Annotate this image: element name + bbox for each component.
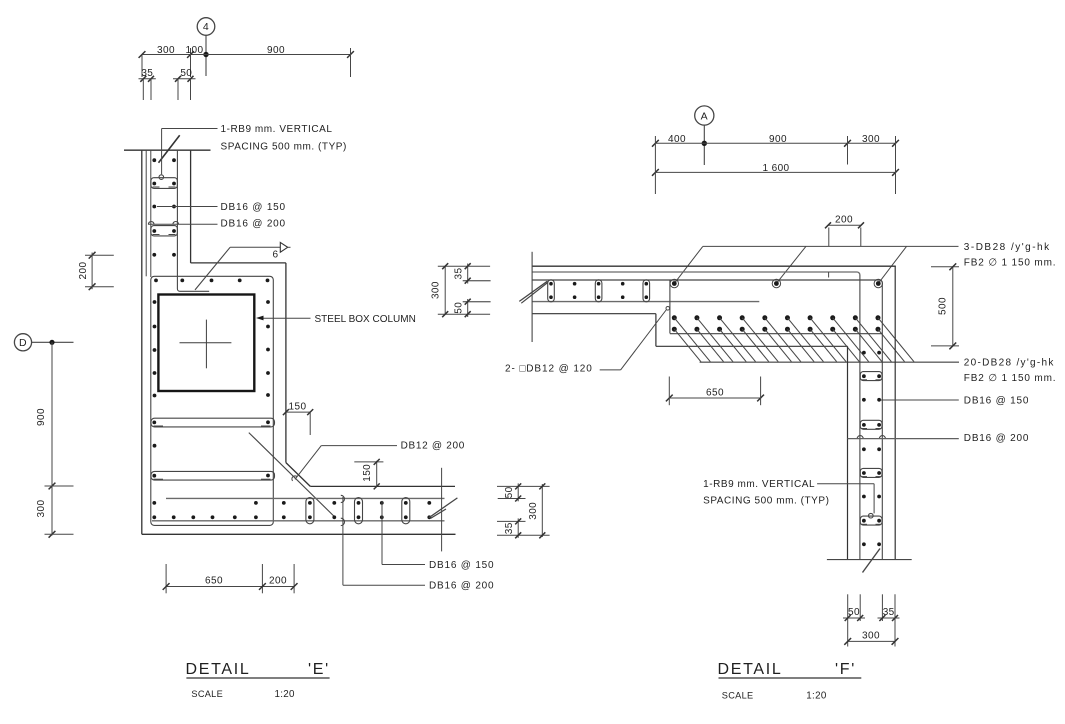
wall F stirrup right line xyxy=(881,283,883,560)
pedestal right rebar dots xyxy=(266,300,270,397)
svg-text:3-DB28 /y'g-hk: 3-DB28 /y'g-hk xyxy=(964,242,1051,253)
svg-text:650: 650 xyxy=(706,387,724,398)
slab E stirrups xyxy=(306,498,410,524)
slab F top rebar line xyxy=(532,272,860,275)
svg-text:150: 150 xyxy=(289,401,307,412)
svg-text:FB2 ∅ 1 150 mm.: FB2 ∅ 1 150 mm. xyxy=(964,373,1057,384)
pedestal E chamfer xyxy=(286,463,310,487)
leader 1-RB9 F xyxy=(817,484,874,518)
wall F stirrup boxes xyxy=(860,372,882,525)
wall E rebar dots xyxy=(152,158,176,256)
dimension 500 F xyxy=(931,263,959,349)
box-out step F xyxy=(656,314,848,347)
extension line E-top right xyxy=(350,48,352,77)
svg-text:300: 300 xyxy=(157,45,175,56)
grid bubble 4 xyxy=(197,18,215,76)
rebar break slash wall E xyxy=(159,135,180,162)
slab E lower rebar dots xyxy=(152,515,431,519)
leader DB16 150 E-wall xyxy=(157,206,218,208)
svg-text:SCALE: SCALE xyxy=(722,690,754,700)
grid bubble D xyxy=(14,334,73,351)
dimension 650 E-bottom xyxy=(163,576,298,590)
title DETAIL F xyxy=(718,661,862,678)
svg-text:'F': 'F' xyxy=(835,661,856,678)
wall E stirrup hooks xyxy=(148,222,178,225)
svg-text:2- □DB12 @ 120: 2- □DB12 @ 120 xyxy=(505,364,593,375)
slab E bottom cover line xyxy=(152,520,445,522)
slab E top rebar hook arc xyxy=(341,495,345,502)
bent bar diagonal E xyxy=(249,433,335,517)
svg-text:1:20: 1:20 xyxy=(275,689,296,700)
slab F stirrups xyxy=(548,280,650,302)
slab F top cover line xyxy=(532,280,882,283)
svg-text:200: 200 xyxy=(78,262,89,280)
slab E top edge xyxy=(310,485,455,487)
svg-text:50: 50 xyxy=(504,486,515,498)
svg-text:900: 900 xyxy=(36,408,47,426)
wall F stirrup hooks xyxy=(857,436,885,439)
leader 1-RB9 E xyxy=(159,129,218,180)
svg-text:4: 4 xyxy=(203,21,209,33)
dimension 650 F xyxy=(666,377,764,406)
leader 3-DB28 xyxy=(674,246,958,283)
3-DB28 ringed dots xyxy=(670,279,882,287)
svg-text:35: 35 xyxy=(454,268,465,280)
svg-text:STEEL BOX COLUMN: STEEL BOX COLUMN xyxy=(315,314,416,325)
svg-text:'E': 'E' xyxy=(308,661,330,678)
svg-text:150: 150 xyxy=(362,464,373,482)
slab E top rebar line xyxy=(166,497,445,499)
dimension 50 F-bottom xyxy=(843,607,865,621)
leader 2-DB12 xyxy=(600,310,667,370)
svg-text:DETAIL: DETAIL xyxy=(718,661,783,678)
svg-text:DB16 @ 200: DB16 @ 200 xyxy=(429,581,494,592)
leader DB16 150 F xyxy=(881,399,959,401)
svg-text:200: 200 xyxy=(269,576,287,587)
dimension line 1600 xyxy=(652,163,899,176)
svg-text:DB16 @ 150: DB16 @ 150 xyxy=(964,395,1029,406)
dimension 300 E-right xyxy=(528,483,546,538)
slab F end break slashes xyxy=(519,281,548,303)
dimension line F-top xyxy=(652,140,899,147)
svg-text:900: 900 xyxy=(769,134,787,145)
wall F break slash xyxy=(863,549,881,573)
slab F top edge xyxy=(532,265,896,267)
wall F rebar dots xyxy=(862,351,881,546)
svg-text:A: A xyxy=(701,110,708,122)
svg-text:300: 300 xyxy=(862,630,880,641)
dimension 35 F-left xyxy=(454,263,471,284)
F-left ext lines xyxy=(438,266,491,314)
svg-text:300: 300 xyxy=(36,500,47,518)
pedestal E right face xyxy=(285,263,287,463)
pedestal stirrup band 2 xyxy=(151,471,275,480)
dimension 200 E-left xyxy=(78,252,114,290)
wall F bottom break line xyxy=(827,559,912,561)
svg-text:50: 50 xyxy=(454,302,465,314)
svg-text:100: 100 xyxy=(186,45,204,56)
svg-text:50: 50 xyxy=(848,607,860,618)
pedestal top rebar dots xyxy=(154,279,269,283)
beam F left edge xyxy=(669,280,671,334)
title SCALE F xyxy=(722,690,827,701)
svg-text:FB2 ∅ 1 150 mm.: FB2 ∅ 1 150 mm. xyxy=(964,257,1057,268)
dimension 150 chamfer height xyxy=(354,459,383,490)
beam F bar end circle xyxy=(666,307,670,311)
leader DB16 200 F xyxy=(848,438,959,440)
slab E end break slashes xyxy=(429,498,457,518)
20-DB28 rebar dots xyxy=(672,315,881,331)
svg-text:1-RB9 mm. VERTICAL: 1-RB9 mm. VERTICAL xyxy=(703,479,815,490)
wall E stirrup left line xyxy=(150,150,152,277)
title DETAIL E xyxy=(186,661,330,678)
slab F left cut edge xyxy=(531,252,533,342)
footing E top edge xyxy=(191,262,286,264)
grid bubble A xyxy=(695,106,714,165)
wall E stirrup box 2 xyxy=(151,226,178,236)
svg-text:650: 650 xyxy=(205,576,223,587)
slab F bottom edge xyxy=(532,313,656,315)
svg-text:20-DB28 /y'g-hk: 20-DB28 /y'g-hk xyxy=(964,357,1055,368)
beam F bottom cover line xyxy=(670,333,882,335)
pedestal left rebar dots xyxy=(153,300,157,448)
wall E stirrup right line xyxy=(177,150,209,291)
steel box centerline cross xyxy=(180,320,232,369)
slab F bottom cover line xyxy=(532,301,759,303)
hatch band F xyxy=(674,318,914,362)
wall E outer left face xyxy=(141,150,143,534)
dimension 35 E-top xyxy=(139,68,156,100)
dimension 35 E-right xyxy=(504,518,521,538)
leader DB16 200 E-wall xyxy=(148,223,218,225)
slab bar diagonal E xyxy=(195,247,230,290)
svg-text:SCALE: SCALE xyxy=(191,689,223,699)
svg-text:35: 35 xyxy=(883,607,895,618)
svg-text:1-RB9 mm. VERTICAL: 1-RB9 mm. VERTICAL xyxy=(221,124,333,135)
ground line E xyxy=(124,149,211,151)
svg-text:D: D xyxy=(19,337,27,349)
dimension line E-left vertical xyxy=(45,342,74,537)
wall E stirrup box 1 xyxy=(151,178,178,189)
dimension 150 chamfer width xyxy=(283,401,313,435)
svg-text:200: 200 xyxy=(835,215,853,226)
F-top extension lines xyxy=(655,136,895,194)
pedestal stirrup band 1 xyxy=(151,418,275,427)
dimension 300 F-left xyxy=(431,263,449,317)
dimension 50 F-left xyxy=(454,299,471,318)
svg-text:DETAIL: DETAIL xyxy=(186,661,251,678)
svg-text:35: 35 xyxy=(141,68,153,79)
dimension 200 F-top xyxy=(825,215,864,247)
svg-text:1:20: 1:20 xyxy=(806,690,827,701)
dimension line E-top xyxy=(139,51,354,58)
svg-text:500: 500 xyxy=(937,297,948,315)
wall F outer left face xyxy=(847,346,849,559)
dimension 50 E-right xyxy=(504,483,521,501)
svg-text:SPACING 500 mm. (TYP): SPACING 500 mm. (TYP) xyxy=(221,142,347,153)
dimension 300 F-bottom xyxy=(844,630,898,644)
steel box column U1 xyxy=(158,295,254,392)
svg-text:300: 300 xyxy=(862,134,880,145)
leader DB12 200 xyxy=(292,446,397,481)
svg-text:35: 35 xyxy=(504,522,515,534)
wall F stirrup left line xyxy=(859,275,861,560)
svg-text:900: 900 xyxy=(267,45,285,56)
svg-text:DB16 @ 150: DB16 @ 150 xyxy=(429,560,494,571)
wall E outer rebar line xyxy=(145,150,147,276)
svg-text:DB16 @ 200: DB16 @ 200 xyxy=(221,218,286,229)
slab E bottom hook arc xyxy=(341,518,345,525)
svg-text:50: 50 xyxy=(180,68,192,79)
leader 20-DB28 xyxy=(700,361,959,363)
svg-text:SPACING 500 mm. (TYP): SPACING 500 mm. (TYP) xyxy=(703,496,829,507)
slab F rebar dots upper xyxy=(549,282,648,286)
svg-text:DB16 @ 150: DB16 @ 150 xyxy=(221,202,286,213)
leader DB16 150 E-bottom xyxy=(382,501,425,565)
svg-text:1 600: 1 600 xyxy=(762,163,789,174)
title SCALE E xyxy=(191,689,295,700)
extension line E-top mid xyxy=(190,48,192,77)
svg-text:300: 300 xyxy=(431,281,442,299)
extension line slab E right xyxy=(441,468,443,552)
dimension 50 E-top xyxy=(173,68,196,100)
wall E inner face xyxy=(190,150,192,263)
dimension 35 F-bottom xyxy=(878,607,900,621)
svg-text:300: 300 xyxy=(528,502,539,520)
slab F rebar dots lower xyxy=(549,295,648,299)
wall F L-bar lap tick xyxy=(828,272,830,278)
pedestal cover box E xyxy=(151,276,273,525)
F bottom extension lines xyxy=(848,594,895,646)
extension line E-top left xyxy=(141,55,143,78)
slab E upper rebar dots xyxy=(152,501,431,505)
slab E bottom edge xyxy=(142,533,456,535)
svg-text:400: 400 xyxy=(668,134,686,145)
wall F outer right face xyxy=(894,266,896,559)
svg-text:DB16 @ 200: DB16 @ 200 xyxy=(964,433,1029,444)
section flag 6 xyxy=(230,242,290,260)
label STEEL BOX COLUMN xyxy=(256,314,416,325)
svg-text:DB12 @ 200: DB12 @ 200 xyxy=(401,441,465,452)
svg-text:6: 6 xyxy=(273,249,279,260)
E-right ext lines xyxy=(497,486,550,535)
leader DB16 200 E-bottom xyxy=(343,497,425,585)
E bottom extension lines xyxy=(166,564,294,593)
